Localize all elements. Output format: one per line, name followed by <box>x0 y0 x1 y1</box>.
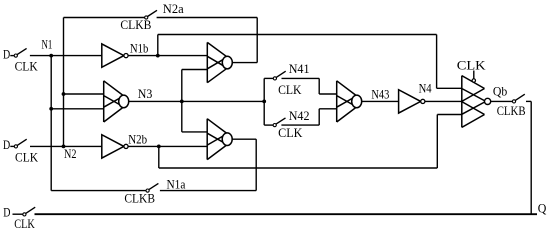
wire U3 lower input <box>51 108 103 110</box>
switch N2a (CLKB controlled) <box>145 10 157 19</box>
wire Qb to CLKB switch <box>491 100 513 102</box>
clocked inverter stage U3 (output N3) <box>104 81 129 122</box>
wire N41 branch to switch <box>264 77 273 79</box>
svg-text:D: D <box>3 138 10 152</box>
wire U4 output <box>232 138 256 140</box>
wire node N1 row <box>30 55 102 57</box>
junction node N1 <box>49 54 53 58</box>
wire N3 branch into U4 upper input <box>182 131 207 133</box>
wire N41 into U7 upper input <box>319 93 337 95</box>
wire vertical N1 net down to N1a switch rail <box>50 56 52 191</box>
wire N1b up-branch <box>157 35 159 56</box>
inverter U8 (N43 to N4) <box>399 90 425 113</box>
label N41 <box>289 62 310 76</box>
svg-text:N1b: N1b <box>130 42 149 56</box>
svg-text:N43: N43 <box>371 88 389 102</box>
svg-text:N4: N4 <box>419 81 432 95</box>
svg-text:N2a: N2a <box>163 2 184 16</box>
label CLK (switch S2) <box>15 151 38 165</box>
label Q <box>538 202 547 216</box>
wire U3 upper input <box>64 93 104 95</box>
junction node N2 <box>62 145 66 149</box>
inverter U6 (N2 to N2b) <box>102 135 128 158</box>
wire N2b long rail to output stage U5 <box>159 167 438 169</box>
wire N1a rail right segment <box>160 190 256 192</box>
junction node N3 at x182 <box>180 100 184 104</box>
wire N41 corner down <box>318 78 320 94</box>
switch N41 (CLK controlled) <box>273 71 285 80</box>
svg-text:Q: Q <box>538 202 547 216</box>
label CLKB (output switch) <box>497 104 526 118</box>
svg-text:N3: N3 <box>138 87 153 101</box>
label CLK (switch S1) <box>15 60 38 74</box>
label CLKB (bottom-left switch) <box>124 192 155 206</box>
wire vertical up to U5 bottom input <box>436 115 438 169</box>
wire node N2 row <box>30 145 102 147</box>
junction node N1b <box>156 54 160 58</box>
wire vertical left drop from top rail <box>63 18 65 147</box>
output stage U5 (triple clocked inverter, output Qb) <box>462 76 491 128</box>
wire N3 branch vertical to U2 and U4 inputs <box>181 70 183 132</box>
svg-text:CLKB: CLKB <box>124 192 155 206</box>
junction node N3 at x264 <box>262 100 266 104</box>
wire D1 stub <box>10 55 14 57</box>
svg-text:CLK: CLK <box>278 126 302 140</box>
label N4 <box>419 81 432 95</box>
label CLK (switch N41) <box>278 83 301 97</box>
wire top rail right segment <box>157 17 258 19</box>
label N1 <box>42 37 53 51</box>
label N2b <box>128 133 147 147</box>
wire N3 branch into U2 lower input <box>182 69 208 71</box>
wire N42 to gate U7 <box>281 124 319 126</box>
wire N2b down-branch <box>158 146 160 168</box>
junction node N2b <box>157 145 161 149</box>
wire D2 stub <box>10 145 14 147</box>
label D (input 2) <box>3 138 10 152</box>
wire vertical down to U5 top input <box>436 35 438 89</box>
svg-text:N42: N42 <box>289 109 310 123</box>
svg-text:D: D <box>3 47 10 61</box>
label CLK (switch S3) <box>14 217 35 231</box>
wire U4 output vertical down to N1a rail <box>255 139 257 190</box>
wire feedback vertical from stage U2 output to top rail <box>256 18 258 63</box>
svg-text:CLK: CLK <box>15 60 38 74</box>
label D (input 3) <box>3 206 10 220</box>
wire N42 branch to switch <box>264 124 273 126</box>
clocked inverter stage U7 (output N43) <box>337 81 362 122</box>
wire N1b from inverter U1 to stage U2 <box>128 55 207 57</box>
svg-text:N2b: N2b <box>128 133 147 147</box>
svg-text:N2: N2 <box>64 147 77 161</box>
inverter U1 (N1 to N1b) <box>102 44 128 67</box>
label N43 <box>371 88 389 102</box>
svg-text:CLK: CLK <box>14 217 35 231</box>
svg-text:Qb: Qb <box>493 85 507 99</box>
svg-text:CLK: CLK <box>457 59 486 73</box>
wire U2 output to feedback vertical <box>232 62 257 64</box>
label N1a <box>167 177 186 191</box>
clocked inverter stage U2 (inputs N1b and N3) <box>207 42 232 82</box>
wire N2b from inverter U6 to stage U4 <box>128 145 207 147</box>
label D (input 1) <box>3 47 10 61</box>
switch N1a (CLKB controlled) <box>146 183 158 192</box>
wire into U5 top input <box>437 87 462 89</box>
label N3 <box>138 87 153 101</box>
label N2a <box>163 2 184 16</box>
label CLKB (top switch) <box>120 18 151 32</box>
wire N42 corner up <box>318 109 320 125</box>
svg-text:N41: N41 <box>289 62 310 76</box>
junction on top-rail net feeding U3 upper input <box>62 92 66 96</box>
wire N42 into U7 lower input <box>319 108 337 110</box>
switch S1 (CLK) at D input 1 <box>14 48 26 57</box>
wire into U5 bottom input <box>437 114 462 116</box>
wire CLK pin stub of U5 <box>473 71 475 79</box>
wire Q rail <box>35 213 538 215</box>
wire N1a rail left segment <box>51 190 146 192</box>
switch S2 (CLK) at D input 2 <box>14 139 26 148</box>
svg-text:CLKB: CLKB <box>120 18 151 32</box>
wire after output switch <box>526 100 531 102</box>
label CLK (switch N42) <box>278 126 302 140</box>
wire top rail left segment (node N2a net) <box>64 17 145 19</box>
wire D3 stub <box>13 213 23 215</box>
wire node N43 <box>362 100 399 102</box>
wire N1b long rail to output stage U5 <box>158 34 437 36</box>
label N1b <box>130 42 149 56</box>
label N42 <box>289 109 310 123</box>
wire N41 to gate U7 <box>282 77 320 79</box>
switch Qb-Q (CLKB controlled) <box>512 94 524 103</box>
wire node N4 to output stage U5 <box>425 100 462 102</box>
svg-text:N1: N1 <box>42 37 53 51</box>
svg-text:CLKB: CLKB <box>497 104 526 118</box>
label N2 <box>64 147 77 161</box>
label Qb <box>493 85 507 99</box>
svg-text:D: D <box>3 206 10 220</box>
label CLK (U5 clock pin) <box>457 59 486 73</box>
bubble CLK pin of U5 <box>472 79 475 82</box>
svg-text:CLK: CLK <box>15 151 38 165</box>
svg-text:N1a: N1a <box>167 177 186 191</box>
wire N41 branch vertical <box>263 78 265 125</box>
switch S3 (CLK) at D input 3 <box>23 207 35 216</box>
junction on N1 net feeding U3 lower input <box>49 107 53 111</box>
wire vertical output to Q rail <box>530 101 532 214</box>
wire node N3 <box>129 100 265 102</box>
svg-text:CLK: CLK <box>278 83 301 97</box>
clocked inverter stage U4 (inputs N3 and N2b) <box>207 119 232 160</box>
switch N42 (CLK controlled) <box>273 118 285 127</box>
